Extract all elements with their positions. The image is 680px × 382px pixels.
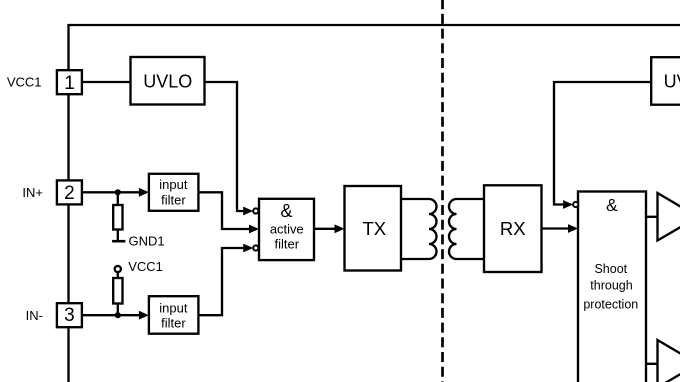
wire shoot-through gate to buffer A2 xyxy=(646,363,658,365)
junction node at pin3 xyxy=(115,312,121,318)
block UVLO U1 xyxy=(131,57,205,105)
svg-text:input: input xyxy=(159,177,188,192)
ground GND1 xyxy=(112,240,125,243)
svg-text:GND1: GND1 xyxy=(129,234,165,249)
wire pin2 to input filter 1 xyxy=(82,191,140,193)
svg-text:TX: TX xyxy=(362,218,386,239)
transformer T1 primary coil xyxy=(429,199,437,259)
inverter bubble: active filter bottom input xyxy=(253,245,258,250)
svg-text:active: active xyxy=(270,222,304,237)
block RX xyxy=(484,185,542,272)
wire input filter 2 to active filter bottom input xyxy=(198,248,250,315)
inverter bubble: active filter top input xyxy=(253,208,258,213)
buffer A1 (clipped at right edge) xyxy=(658,193,680,241)
wire VCC1 terminal to resistor R2 xyxy=(117,272,119,278)
wire resistor R2 to junction xyxy=(117,304,119,316)
wire UVLO U1 output down to active filter top input xyxy=(205,82,251,211)
arrowhead into input filter 2 xyxy=(139,311,149,320)
block TX xyxy=(345,186,402,271)
svg-text:filter: filter xyxy=(161,193,186,208)
wire input filter 1 to active filter middle input xyxy=(198,192,250,229)
svg-text:UVLO: UVLO xyxy=(143,72,192,92)
wire TX to transformer primary stubs xyxy=(401,199,429,259)
block input filter 1 xyxy=(149,174,199,211)
svg-text:IN-: IN- xyxy=(26,308,43,323)
gate: AND active filter xyxy=(259,199,314,260)
svg-text:VCC1: VCC1 xyxy=(7,75,42,90)
buffer A2 (clipped at edges) xyxy=(658,340,680,382)
arrowhead into active filter top bubble xyxy=(243,207,253,216)
wire RX output to shoot-through gate xyxy=(542,227,569,229)
svg-text:VCC1: VCC1 xyxy=(128,259,163,274)
isolation barrier (dashed) xyxy=(441,0,444,382)
arrowhead into TX xyxy=(335,224,345,233)
svg-text:protection: protection xyxy=(583,297,638,311)
svg-text:through: through xyxy=(590,279,632,293)
wire active filter output to TX xyxy=(314,228,336,230)
svg-text:filter: filter xyxy=(161,316,186,331)
block UVLO U2 (clipped at right edge) xyxy=(651,57,680,104)
junction node at pin2 xyxy=(115,189,121,195)
wire shoot-through gate to buffer A1 xyxy=(646,216,658,218)
wire pin1 to UVLO U1 xyxy=(82,81,131,83)
arrowhead into shoot-through gate inverted input bubble xyxy=(563,200,573,209)
resistor R1 xyxy=(113,205,122,230)
svg-text:UVLO: UVLO xyxy=(664,72,680,92)
arrowhead into active filter bottom bubble xyxy=(243,244,253,253)
arrowhead into shoot-through gate input xyxy=(568,224,578,233)
pin 1 box xyxy=(57,70,82,94)
svg-text:IN+: IN+ xyxy=(22,185,43,200)
inverter bubble: shoot-through gate input xyxy=(573,202,578,207)
svg-text:&: & xyxy=(606,195,618,215)
block input filter 2 xyxy=(149,296,199,334)
svg-text:input: input xyxy=(159,300,188,315)
resistor R2 xyxy=(113,278,122,304)
wire transformer secondary stubs to RX xyxy=(457,199,485,259)
pin 2 box xyxy=(57,180,82,204)
svg-text:&: & xyxy=(280,201,292,221)
pin 3 box xyxy=(57,303,82,327)
svg-text:2: 2 xyxy=(64,183,75,204)
svg-text:filter: filter xyxy=(275,237,300,252)
transformer T1 secondary coil xyxy=(449,199,457,259)
svg-text:1: 1 xyxy=(64,73,75,94)
svg-text:3: 3 xyxy=(64,305,75,326)
arrowhead into input filter 1 xyxy=(139,188,149,197)
gate: AND shoot-through protection (clipped at bottom) xyxy=(578,192,646,382)
arrowhead into active filter middle input xyxy=(249,225,259,234)
svg-text:Shoot: Shoot xyxy=(594,262,627,276)
wire resistor R1 to ground xyxy=(117,230,119,241)
wire pin3 to input filter 2 xyxy=(82,314,140,316)
wire UVLO U2 down to shoot-through gate inverted input xyxy=(554,82,651,205)
wire junction to resistor R1 xyxy=(117,192,119,205)
VCC1 terminal circle xyxy=(115,266,121,272)
svg-text:RX: RX xyxy=(500,218,526,239)
